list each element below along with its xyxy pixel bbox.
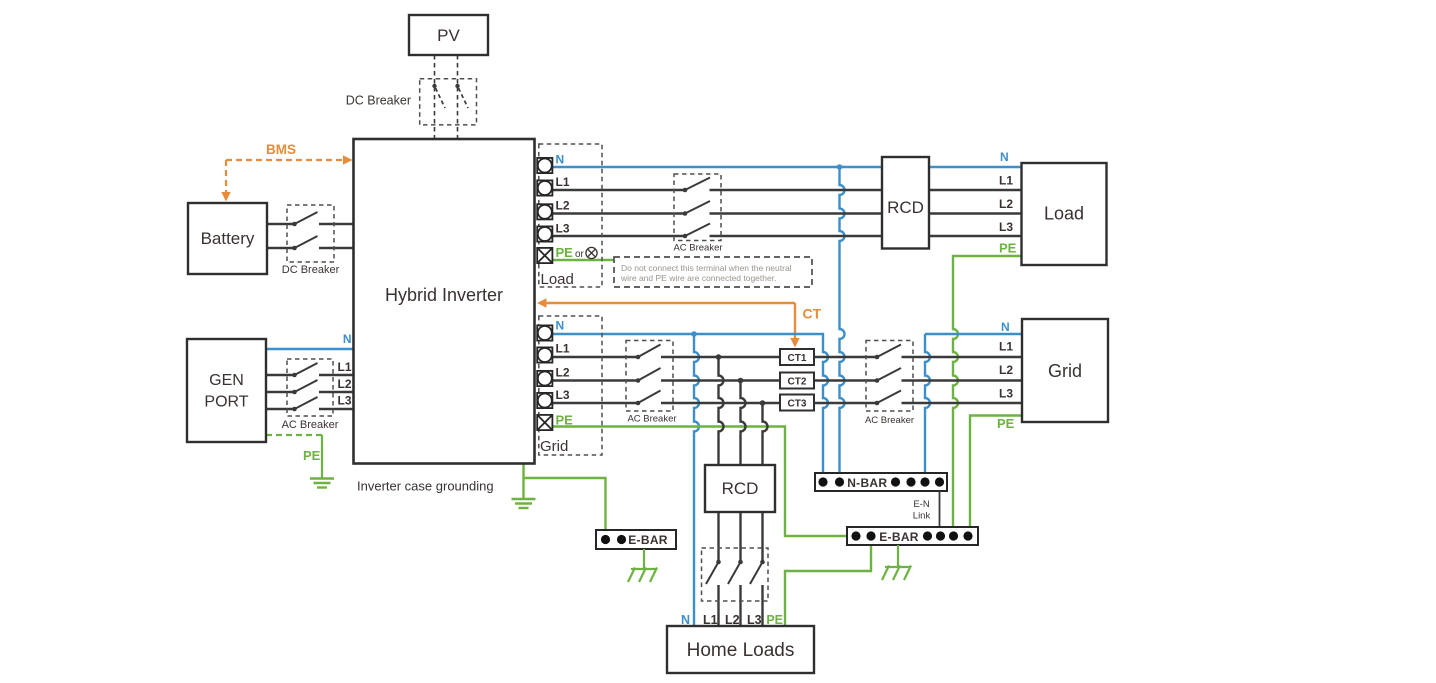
Hybrid Inverter box U1 bbox=[354, 139, 535, 464]
svg-text:L2: L2 bbox=[999, 197, 1013, 211]
wire home L1 RCD to breaker bbox=[706, 512, 721, 584]
Battery box bbox=[188, 203, 267, 274]
svg-text:BMS: BMS bbox=[266, 142, 296, 157]
AC breaker (grid 2) pole L2 bbox=[875, 368, 901, 383]
svg-text:PV: PV bbox=[437, 26, 460, 45]
wire grid L3 CT3 to AC breaker 2 bbox=[814, 402, 877, 404]
E-N Link wire bbox=[939, 491, 941, 527]
svg-text:L3: L3 bbox=[556, 388, 570, 402]
wire GEN PORT L1 to AC breaker bbox=[266, 374, 295, 376]
label N load bbox=[556, 153, 565, 167]
wire GEN PORT N to inverter (blue) bbox=[266, 348, 354, 350]
svg-text:AC Breaker: AC Breaker bbox=[282, 419, 339, 431]
label L2 at Grid box bbox=[999, 363, 1013, 377]
AC breaker (grid 1) pole L2 bbox=[636, 368, 661, 383]
svg-text:CT2: CT2 bbox=[788, 377, 807, 388]
svg-text:Link: Link bbox=[913, 511, 931, 522]
label L3 home loads bbox=[747, 613, 762, 627]
svg-text:L1: L1 bbox=[999, 174, 1013, 188]
load terminals dashed box bbox=[539, 144, 602, 287]
svg-text:L1: L1 bbox=[556, 175, 570, 189]
terminal load N bbox=[537, 158, 552, 173]
svg-text:PE: PE bbox=[766, 613, 783, 627]
AC breaker (load) pole L1 bbox=[683, 178, 710, 193]
label L2 at Load box bbox=[999, 197, 1013, 211]
wire N-BAR up to Grid box (blue, hops) bbox=[925, 334, 1022, 473]
label L1 at Load box bbox=[999, 174, 1013, 188]
Grid box bbox=[1022, 319, 1108, 422]
terminal grid PE bbox=[537, 415, 552, 430]
label AC Breaker (load) bbox=[673, 243, 722, 254]
svg-text:RCD: RCD bbox=[887, 198, 924, 217]
AC breaker (load) pole L3 bbox=[683, 224, 710, 239]
wire load L2 AC breaker to RCD/Load bbox=[710, 212, 1022, 214]
svg-text:AC Breaker: AC Breaker bbox=[865, 415, 914, 426]
terminal load PE bbox=[537, 248, 552, 263]
svg-text:E-N: E-N bbox=[913, 499, 930, 510]
svg-text:E-BAR: E-BAR bbox=[879, 530, 919, 544]
label AC Breaker (gen) bbox=[282, 419, 339, 431]
svg-text:L2: L2 bbox=[556, 366, 570, 380]
svg-text:AC Breaker: AC Breaker bbox=[673, 243, 722, 254]
svg-text:RCD: RCD bbox=[722, 479, 759, 498]
wire grid L1 breaker to CT1 bbox=[661, 356, 780, 358]
wire home L3 RCD to breaker bbox=[750, 512, 765, 584]
svg-text:L1: L1 bbox=[703, 613, 718, 627]
terminal load L1 bbox=[537, 180, 552, 195]
wire Load box PE to E-BAR (green, hops) bbox=[953, 256, 1022, 527]
wire home L3 breaker to Home Loads bbox=[761, 585, 763, 626]
svg-text:Inverter case grounding: Inverter case grounding bbox=[357, 479, 494, 494]
DC breaker (PV) dashed box bbox=[420, 79, 477, 125]
svg-text:PE: PE bbox=[556, 413, 574, 428]
label L1 home loads bbox=[703, 613, 718, 627]
wire grid L2 CT2 to AC breaker 2 bbox=[814, 379, 877, 381]
RCD box (load) bbox=[882, 157, 929, 249]
wire GEN PORT PE down to ground bbox=[321, 435, 323, 478]
wire inverter case grounding bbox=[522, 464, 524, 499]
wire load N (blue) bbox=[552, 166, 1021, 168]
svg-text:L1: L1 bbox=[337, 360, 351, 374]
BMS communication dashed arrow bbox=[221, 155, 352, 201]
wire grid L2 breaker to CT2 bbox=[661, 379, 780, 381]
note text line 2 bbox=[620, 273, 776, 283]
wire home L2 breaker to Home Loads bbox=[739, 585, 741, 626]
svg-text:N: N bbox=[556, 153, 565, 167]
terminal load L3 bbox=[537, 226, 552, 241]
terminal grid N bbox=[537, 325, 552, 340]
wire grid L1 to Grid box bbox=[902, 356, 1023, 358]
note text line 1 bbox=[621, 263, 792, 273]
N-BAR neutral bus bar bbox=[815, 473, 947, 491]
svg-text:or: or bbox=[575, 249, 585, 260]
svg-text:PORT: PORT bbox=[204, 394, 248, 411]
label Load terminals group bbox=[541, 271, 574, 288]
RCD box (home loads) bbox=[705, 465, 775, 512]
terminal grid L3 bbox=[537, 393, 552, 408]
wire grid L3 to Grid box bbox=[902, 402, 1023, 404]
terminal grid L2 bbox=[537, 371, 552, 386]
node PE-or symbol bbox=[586, 247, 597, 258]
AC breaker (grid 1) dashed box bbox=[626, 341, 673, 412]
label N grid bbox=[556, 319, 565, 333]
svg-text:AC Breaker: AC Breaker bbox=[627, 414, 676, 425]
label N gen bbox=[343, 332, 352, 346]
svg-text:CT3: CT3 bbox=[788, 399, 807, 410]
AC breaker (load) dashed box bbox=[674, 174, 721, 241]
svg-text:L1: L1 bbox=[556, 342, 570, 356]
wire home L1 breaker to Home Loads bbox=[717, 585, 719, 626]
svg-text:Load: Load bbox=[541, 271, 574, 288]
label Inverter case grounding bbox=[357, 479, 494, 494]
svg-text:Grid: Grid bbox=[540, 438, 568, 455]
wire load L3 AC breaker to RCD/Load bbox=[710, 235, 1022, 237]
label AC Breaker (grid 1) bbox=[627, 414, 676, 425]
grid terminals dashed box bbox=[539, 316, 602, 455]
label N home loads bbox=[681, 613, 690, 627]
svg-text:L3: L3 bbox=[337, 394, 351, 408]
svg-text:N: N bbox=[681, 613, 690, 627]
AC breaker (grid 2) pole L1 bbox=[875, 345, 901, 360]
wire DC breaker to inverter (bottom) bbox=[319, 247, 354, 249]
svg-text:PE: PE bbox=[303, 448, 321, 463]
label PE load bbox=[556, 245, 574, 260]
ground symbol E-BAR left bbox=[628, 549, 657, 582]
E-BAR earth bus bar (left) bbox=[596, 530, 676, 549]
svg-text:L2: L2 bbox=[556, 199, 570, 213]
svg-text:PE: PE bbox=[556, 245, 574, 260]
wire load PE stub (green) bbox=[552, 259, 614, 261]
label L3 gen bbox=[337, 394, 351, 408]
svg-text:PE: PE bbox=[999, 241, 1017, 256]
label PE grid bbox=[556, 413, 574, 428]
AC breaker (home) dashed box bbox=[702, 548, 769, 601]
svg-text:L3: L3 bbox=[999, 220, 1013, 234]
wire battery - to DC breaker bbox=[267, 247, 295, 249]
label L3 grid bbox=[556, 388, 570, 402]
wire GEN PORT L2 to AC breaker bbox=[266, 391, 295, 393]
wire grid N (blue) with corner to N-BAR bbox=[552, 334, 828, 473]
svg-text:L3: L3 bbox=[556, 222, 570, 236]
note dashed box bbox=[614, 257, 812, 287]
label L1 gen bbox=[337, 360, 351, 374]
AC breaker (load) pole L2 bbox=[683, 201, 710, 216]
junction grid L3 tap bbox=[760, 400, 766, 406]
svg-text:GEN: GEN bbox=[209, 372, 244, 389]
label PE home loads bbox=[766, 613, 783, 627]
label CT bbox=[803, 306, 822, 322]
wire AC breaker to inverter L3 bbox=[319, 408, 354, 410]
svg-text:L3: L3 bbox=[999, 387, 1013, 401]
E-N Link label bbox=[913, 499, 931, 522]
svg-text:Do not connect this terminal w: Do not connect this terminal when the ne… bbox=[621, 263, 792, 273]
wire grid L3 breaker to CT3 bbox=[661, 402, 780, 404]
wire load L3 inverter to AC breaker bbox=[552, 235, 685, 237]
label L1 at Grid box bbox=[999, 340, 1013, 354]
wire home L2 RCD to breaker bbox=[728, 512, 743, 584]
svg-text:L2: L2 bbox=[337, 377, 351, 391]
DC breaker (PV) pole 1 bbox=[432, 84, 445, 108]
wire AC breaker to inverter L2 bbox=[319, 391, 354, 393]
junction grid L1 tap bbox=[716, 354, 722, 360]
svg-text:Home Loads: Home Loads bbox=[687, 640, 795, 661]
wire L3 tap down to RCD (hops) bbox=[763, 403, 768, 465]
wire battery + to DC breaker bbox=[267, 223, 295, 225]
AC breaker (grid 2) dashed box bbox=[866, 341, 913, 412]
label L1 grid bbox=[556, 342, 570, 356]
ground symbol inverter case bbox=[512, 499, 536, 508]
wire AC breaker to inverter L1 bbox=[319, 374, 354, 376]
wire grid L3 inverter to AC breaker bbox=[552, 402, 638, 404]
label PE at Load box bbox=[999, 241, 1017, 256]
terminal load L2 bbox=[537, 204, 552, 219]
svg-text:DC Breaker: DC Breaker bbox=[282, 264, 340, 276]
wire GEN PORT PE dashed bbox=[266, 434, 322, 436]
label N at Grid box bbox=[1001, 320, 1010, 334]
DC breaker (battery) pole 1 bbox=[292, 212, 317, 226]
svg-text:Grid: Grid bbox=[1048, 361, 1082, 381]
svg-text:DC Breaker: DC Breaker bbox=[346, 94, 411, 108]
label AC Breaker (grid 2) bbox=[865, 415, 914, 426]
svg-text:N-BAR: N-BAR bbox=[847, 476, 887, 490]
AC breaker (gen) pole L1 bbox=[292, 363, 317, 377]
label L3 at Grid box bbox=[999, 387, 1013, 401]
AC breaker (grid 2) pole L3 bbox=[875, 391, 901, 406]
svg-text:Battery: Battery bbox=[201, 229, 255, 248]
CT3 sensor bbox=[780, 395, 814, 411]
svg-text:N: N bbox=[343, 332, 352, 346]
DC breaker (battery) pole 2 bbox=[292, 236, 317, 250]
DC breaker (battery) dashed box bbox=[287, 205, 334, 262]
wire load N down to N-BAR (blue, hops) bbox=[840, 167, 845, 473]
CT2 sensor bbox=[780, 373, 814, 389]
label PE at Grid box bbox=[997, 416, 1015, 431]
label L2 gen bbox=[337, 377, 351, 391]
CT1 sensor bbox=[780, 349, 814, 365]
wire load L1 inverter to AC breaker bbox=[552, 189, 685, 191]
svg-text:L1: L1 bbox=[999, 340, 1013, 354]
label L1 load bbox=[556, 175, 570, 189]
wire case ground to E-BAR bbox=[524, 478, 606, 530]
label BMS bbox=[266, 142, 296, 157]
Home Loads box bbox=[667, 626, 814, 673]
svg-text:wire and PE wire are connected: wire and PE wire are connected together. bbox=[620, 273, 776, 283]
CT signal arrow to inverter (orange) bbox=[537, 298, 800, 347]
svg-text:L2: L2 bbox=[725, 613, 740, 627]
junction load N bbox=[837, 164, 843, 170]
label L2 load bbox=[556, 199, 570, 213]
label L3 at Load box bbox=[999, 220, 1013, 234]
wire grid N down to Home Loads (blue, hops) bbox=[694, 334, 699, 626]
label DC Breaker (battery) bbox=[282, 264, 340, 276]
wire E-BAR to Home Loads PE (green) bbox=[785, 545, 871, 626]
wire load L1 AC breaker to RCD/Load bbox=[710, 189, 1022, 191]
AC breaker (grid 1) pole L3 bbox=[636, 391, 661, 406]
junction grid L2 tap bbox=[738, 378, 744, 384]
AC breaker (gen) dashed box bbox=[287, 359, 333, 416]
wire load L2 inverter to AC breaker bbox=[552, 212, 685, 214]
label or bbox=[575, 249, 585, 260]
AC breaker (gen) pole L3 bbox=[292, 397, 317, 411]
label L2 grid bbox=[556, 366, 570, 380]
wire L1 tap down to RCD (hops) bbox=[719, 357, 724, 465]
svg-text:L3: L3 bbox=[747, 613, 762, 627]
AC breaker (grid 1) pole L1 bbox=[636, 345, 661, 360]
junction grid N bbox=[691, 331, 697, 337]
Load box bbox=[1022, 163, 1107, 265]
svg-text:N: N bbox=[556, 319, 565, 333]
svg-text:CT: CT bbox=[803, 306, 822, 322]
wire grid PE to corner (green) bbox=[552, 427, 847, 537]
terminal grid L1 bbox=[537, 347, 552, 362]
wire Grid box PE to E-BAR (green) bbox=[970, 416, 1022, 528]
PV box bbox=[409, 15, 488, 55]
AC breaker (gen) pole L2 bbox=[292, 380, 317, 394]
wire GEN PORT L3 to AC breaker bbox=[266, 408, 295, 410]
label DC Breaker (PV) bbox=[346, 94, 411, 108]
label Grid terminals group bbox=[540, 438, 568, 455]
svg-text:E-BAR: E-BAR bbox=[628, 533, 668, 547]
wire grid L2 inverter to AC breaker bbox=[552, 379, 638, 381]
wire PV+ to DC breaker to inverter (dashed) bbox=[434, 55, 436, 139]
svg-text:PE: PE bbox=[997, 416, 1015, 431]
label L3 load bbox=[556, 222, 570, 236]
wire DC breaker to inverter (top) bbox=[319, 223, 354, 225]
GEN PORT box bbox=[187, 339, 266, 442]
svg-text:Load: Load bbox=[1044, 204, 1084, 224]
svg-text:CT1: CT1 bbox=[788, 353, 807, 364]
wire L2 tap down to RCD (hops) bbox=[741, 381, 746, 466]
wire grid L1 inverter to AC breaker bbox=[552, 356, 638, 358]
wire grid L2 to Grid box bbox=[902, 379, 1023, 381]
svg-text:N: N bbox=[1000, 150, 1009, 164]
label N at Load box bbox=[1000, 150, 1009, 164]
svg-text:L2: L2 bbox=[999, 363, 1013, 377]
E-BAR earth bus bar (right) bbox=[847, 527, 978, 545]
label PE gen bbox=[303, 448, 321, 463]
label L2 home loads bbox=[725, 613, 740, 627]
svg-text:N: N bbox=[1001, 320, 1010, 334]
wire grid L1 CT1 to AC breaker 2 bbox=[814, 356, 877, 358]
svg-text:Hybrid Inverter: Hybrid Inverter bbox=[385, 285, 503, 305]
wire PV- to DC breaker to inverter (dashed) bbox=[457, 55, 459, 139]
DC breaker (PV) pole 2 bbox=[455, 84, 468, 108]
ground symbol E-BAR right bbox=[882, 545, 911, 580]
ground symbol GEN PORT PE bbox=[310, 479, 334, 488]
